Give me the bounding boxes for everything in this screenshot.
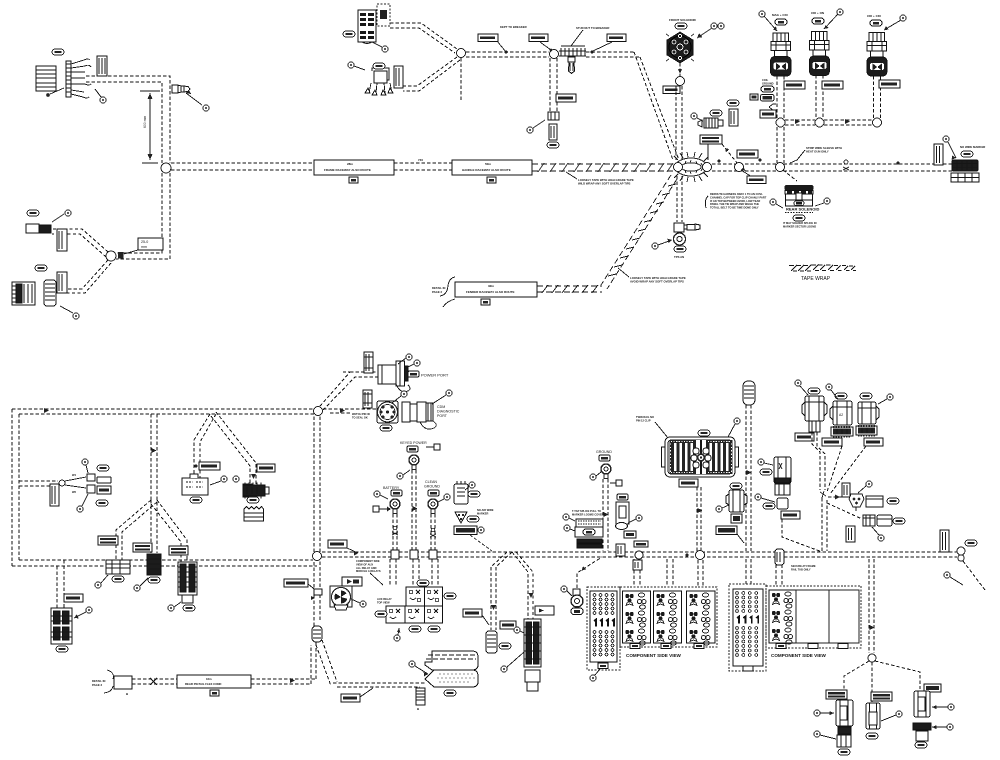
- box right: [877, 515, 892, 526]
- oval label power port: [408, 371, 419, 377]
- ref circle 2 with arrow to bolt: [186, 90, 209, 111]
- wire: Y left branch: [116, 500, 157, 560]
- dark toothed connector below: [243, 483, 269, 499]
- connector crossing bus at 779: [775, 549, 784, 565]
- wire: vertical from node D down: [550, 58, 557, 112]
- harness end connector right: [952, 160, 978, 171]
- ref circle N2: [755, 494, 775, 502]
- bus lug at ground: [429, 550, 437, 559]
- panel empty D2: [829, 590, 859, 643]
- small relay box cluster row1 box1: [406, 587, 425, 606]
- wire node O up to node P: [314, 415, 320, 552]
- wire: hatched loom run to knot: [532, 163, 674, 172]
- svg-text:AVOID WRAP ANY SOFT OVERLAP TI: AVOID WRAP ANY SOFT OVERLAP TIPS: [630, 280, 684, 284]
- ref circle lt1: [814, 710, 834, 716]
- ref circle lt2: [814, 731, 836, 739]
- wire ring up to bus: [577, 557, 602, 588]
- svg-text:REROUTE HARNESS AWAY 1 TO AN C: REROUTE HARNESS AWAY 1 TO AN COVL: [710, 192, 763, 196]
- oval 2: [428, 626, 440, 632]
- oval under right: [183, 605, 195, 611]
- text no air wire: [477, 508, 494, 515]
- ref circle rt2: [932, 724, 953, 730]
- delta connector: [455, 512, 467, 523]
- etc bracket stack: [575, 519, 603, 548]
- splice dot on bus: [718, 160, 721, 163]
- box right of W: [866, 496, 883, 507]
- splice arrows on arch legs: [491, 593, 534, 610]
- wire: node I diag to rear solenoid: [783, 170, 797, 181]
- oval under relay: [190, 497, 202, 503]
- small relay box row2 box3: [425, 606, 443, 623]
- keyed power assembly: [400, 441, 440, 452]
- splice symbol right bus: [896, 161, 899, 164]
- small dark piece below: [731, 514, 742, 523]
- node J coil junction 1: [776, 118, 785, 127]
- boxed label lamp: [64, 594, 83, 602]
- inline fuse narrow box: [57, 229, 67, 251]
- ref circle cdm1: [392, 391, 407, 403]
- box label right of impeller: [342, 577, 362, 586]
- wire: diagonal down to knot: [634, 52, 673, 160]
- svg-text:COMPONENT SIDE VIEW: COMPONENT SIDE VIEW: [626, 653, 682, 658]
- wire: node P diag to power port: [320, 372, 378, 406]
- ref circle: [691, 113, 703, 121]
- svg-text:DIAGNOSTIC: DIAGNOSTIC: [437, 410, 460, 414]
- wire below bus at 748: [746, 559, 751, 584]
- oval right trio: [915, 742, 927, 748]
- oval right: [893, 518, 905, 524]
- ref circles right of relay: [210, 476, 227, 485]
- panel A2 label: [743, 666, 753, 671]
- node L coil junction 3: [873, 118, 882, 127]
- wire: R3 to hub: [830, 446, 866, 494]
- oval lamp: [56, 646, 68, 652]
- oval tall conn: [499, 643, 511, 649]
- panel group2 outer dashed: [766, 586, 861, 648]
- svg-text:FRAME RACEWAY ALSO ROUTE: FRAME RACEWAY ALSO ROUTE: [324, 168, 371, 172]
- oval label: [675, 23, 687, 29]
- ref circle pp1: [398, 354, 412, 364]
- connector at end: [548, 112, 559, 120]
- ref circle etc2: [564, 525, 575, 531]
- boxed label under node H with arrow: [741, 167, 766, 184]
- ref circle mt: [881, 711, 902, 721]
- wire drop to node S: [869, 559, 874, 653]
- dark capsule label: [761, 95, 775, 102]
- ref circle cg: [438, 494, 450, 502]
- label 2: [808, 644, 818, 649]
- solenoid valve column: [616, 494, 630, 530]
- boxed label left of node D: [529, 34, 552, 51]
- trailer raceway rect: [177, 675, 251, 696]
- connector dark toothed left: [12, 282, 35, 305]
- svg-text:KEYED POWER: KEYED POWER: [400, 441, 427, 445]
- splice dot: [685, 553, 688, 556]
- svg-text:740: 740: [418, 158, 423, 162]
- cdm fuse box: [363, 390, 372, 408]
- wire between racks: [394, 163, 452, 170]
- boxed label above bus right: [737, 150, 758, 158]
- ref circle: [52, 210, 71, 222]
- ref circle R3: [878, 394, 893, 404]
- raceway label rect 3: [455, 282, 537, 305]
- wire: Y mid branch: [151, 500, 157, 553]
- panel B label: [630, 644, 640, 649]
- svg-text:HEAT GUN ONLY: HEAT GUN ONLY: [806, 150, 829, 154]
- dark boxed label: [454, 526, 484, 535]
- power port body: [378, 361, 410, 392]
- wire: coil link bus: [785, 120, 873, 125]
- strip wire note: [790, 146, 842, 163]
- ring terminal clean ground: [428, 499, 438, 514]
- panel C box: [654, 591, 682, 643]
- wire: node B up-left branch: [52, 229, 108, 252]
- ref circle N1: [758, 459, 773, 465]
- ring terminal ground: [601, 464, 611, 479]
- oval under mid: [148, 577, 160, 583]
- ignition coil 1 MAG: [771, 13, 792, 76]
- fuse panel A inner: [590, 591, 617, 662]
- dark boxed label light harness: [716, 526, 744, 543]
- svg-text:PORT: PORT: [437, 414, 448, 418]
- svg-text:KEPT TO BREAKER: KEPT TO BREAKER: [500, 25, 527, 29]
- wire drop 3: [432, 559, 438, 586]
- tape wrap legend: [789, 265, 856, 283]
- ref circle: [95, 575, 108, 588]
- svg-text:REAR SOLENOID: REAR SOLENOID: [786, 207, 819, 212]
- boxed label lower: [634, 541, 648, 547]
- wire trailer to elbow: [251, 679, 316, 684]
- panel B2 box: [769, 590, 796, 643]
- node I bus junction circle: [776, 163, 785, 172]
- ref circle pp2: [404, 360, 420, 369]
- splice arrow: [290, 678, 295, 683]
- boxed label R3: [864, 438, 883, 446]
- boxed label right branch: [169, 546, 188, 555]
- tps sensor body: [674, 223, 701, 245]
- ref circle under cluster: [394, 628, 401, 641]
- wire pair inner: [116, 173, 170, 259]
- wire: R1 to hub: [812, 432, 820, 490]
- label 3: [838, 644, 848, 649]
- inline fuse below: [549, 124, 557, 140]
- narrow vertical box label: [846, 526, 855, 542]
- wire: bottom-left bus: [12, 560, 317, 566]
- oval label fan3: [96, 500, 108, 506]
- svg-text:VIEW OF AUX: VIEW OF AUX: [356, 562, 373, 566]
- oval label: [547, 142, 559, 148]
- raceway label rect 1: [314, 160, 394, 183]
- ref circle far right: [944, 572, 963, 585]
- hub node R junction: [820, 491, 826, 498]
- label box 25-0 mm with leader: [124, 238, 163, 254]
- ref circle 1 with leader: [95, 89, 106, 103]
- fuse panel A pins lower: [593, 631, 614, 656]
- svg-text:CHANNEL CAP FOR TOP CLIP CHANL: CHANNEL CAP FOR TOP CLIP CHANLY PART: [710, 195, 767, 199]
- ribbed cylinder at left leg end: [486, 631, 497, 653]
- svg-text:16in: 16in: [206, 677, 212, 681]
- starter lug component: [454, 481, 468, 504]
- left trio connector: [826, 690, 853, 747]
- svg-text:MARKER LOOMS COVERS: MARKER LOOMS COVERS: [572, 512, 606, 516]
- label oval P00: [52, 49, 64, 55]
- right trio connector: [913, 684, 941, 741]
- wire: arch split on bus: [491, 552, 533, 630]
- stud bolt below rail: [568, 57, 575, 74]
- ref circle coil1: [759, 11, 777, 31]
- node K coil junction 2: [815, 118, 824, 127]
- label black dot: [478, 34, 508, 54]
- W triangle connector: [849, 494, 864, 511]
- small box right of tall conn: [535, 606, 554, 615]
- wire hub to W comp: [828, 496, 848, 498]
- svg-text:MARKER SECTOR LOOMS: MARKER SECTOR LOOMS: [783, 224, 816, 228]
- panel BCD outer dashed: [620, 587, 717, 647]
- svg-text:ALL RELAY AND: ALL RELAY AND: [356, 566, 377, 570]
- splice symbol mid bus: [843, 160, 849, 170]
- fuse panel A label: [598, 663, 608, 669]
- oval label: [343, 31, 355, 37]
- note text ecm: [636, 415, 668, 438]
- oval label: [727, 100, 739, 106]
- cdm cylinder body: [402, 402, 436, 429]
- GROUND label assembly: [596, 450, 612, 461]
- trailer pigtail detail: [92, 670, 177, 696]
- oval left trio: [838, 749, 850, 755]
- small connector lower: [863, 515, 875, 526]
- svg-text:MAG + CDI: MAG + CDI: [772, 13, 788, 17]
- junction node B circle: [106, 251, 116, 261]
- ref circle impeller: [351, 599, 366, 607]
- oval right of row1: [444, 593, 456, 599]
- ref circle R1: [795, 380, 808, 395]
- wire from end junction down-right: [963, 561, 985, 590]
- impeller fan connector: [330, 586, 352, 610]
- svg-text:SECURE AT FRAME: SECURE AT FRAME: [791, 564, 816, 568]
- boxed label right: [590, 34, 626, 54]
- boxed label left of node E: [663, 86, 680, 94]
- splice arrow on branch: [251, 474, 256, 479]
- wire bus right of knot: [712, 164, 952, 171]
- wire: main lower bus full width: [322, 552, 957, 557]
- panel D label: [694, 644, 704, 649]
- wire: lower small bus to snowflap: [333, 683, 425, 687]
- wire hub to lower right comp: [827, 503, 862, 519]
- oval right of box: [887, 498, 899, 504]
- node E junction circle: [676, 77, 685, 86]
- splice arrow capsule wire: [747, 470, 752, 475]
- low box: [624, 531, 636, 538]
- wire riser to node O: [314, 560, 320, 626]
- wire: diag pair from relay up to node C: [390, 23, 457, 49]
- svg-text:STUD NUT TO BREAKER: STUD NUT TO BREAKER: [576, 26, 609, 30]
- wire: node P to cdm port: [323, 409, 377, 413]
- ring terminal battery: [390, 499, 400, 514]
- svg-text:CDI + ON: CDI + ON: [811, 11, 824, 15]
- small relay box row1 box2: [425, 587, 443, 606]
- oval label starter: [468, 491, 480, 497]
- splice dot on bus 2: [759, 159, 762, 162]
- bus lug at keyed: [410, 550, 418, 559]
- wire: main bus from node A rightwards: [171, 162, 314, 164]
- wire drops to small relays: [390, 559, 396, 586]
- svg-text:TOTALL BELT TO BE TIME DONE ON: TOTALL BELT TO BE TIME DONE ONLY: [710, 206, 759, 210]
- ref circle: [943, 136, 956, 160]
- splice arrow: [835, 495, 840, 500]
- relay box lower: [182, 474, 208, 495]
- Y splice wire: [769, 104, 776, 110]
- oval under plate: [444, 690, 456, 696]
- wire: knot diagonal loom down-left: [601, 175, 677, 289]
- inline fuse narrow box 2: [57, 272, 67, 293]
- svg-text:W4: W4: [72, 473, 76, 477]
- ref circle kp: [397, 470, 410, 479]
- splice mark: [392, 526, 398, 535]
- ref circle coil2: [824, 9, 843, 29]
- svg-text:T-TAP SPLICE PULL TO: T-TAP SPLICE PULL TO: [572, 509, 601, 513]
- connector R1 top: [802, 396, 827, 432]
- connector N left: [774, 457, 791, 509]
- svg-text:TPS AN: TPS AN: [674, 255, 684, 259]
- svg-text:PANEL THE TIE WRAP AND WHILE T: PANEL THE TIE WRAP AND WHILE THE: [710, 202, 759, 206]
- wire ground down to bus: [603, 479, 608, 551]
- svg-text:POWER PORT: POWER PORT: [421, 373, 449, 378]
- svg-text:FRONT SOLENOID: FRONT SOLENOID: [669, 18, 697, 22]
- splice arrow on bottom bus: [150, 559, 155, 564]
- lamp tall striped connector: [51, 608, 72, 644]
- front solenoid hex connector: [666, 32, 694, 63]
- oil pressure sensor cluster: [698, 118, 723, 128]
- tall connector at right leg: [524, 619, 541, 691]
- fuse holder labels left: [762, 78, 774, 85]
- ref circle ring: [561, 586, 572, 596]
- oval under cdm: [380, 425, 392, 431]
- wire: top bus of bottom harness: [12, 409, 314, 414]
- grommet ribbed cylinder: [44, 280, 56, 306]
- ref circle right: [815, 198, 830, 206]
- ovals under relay cluster: [409, 626, 421, 632]
- wire drop to panel A2: [776, 559, 782, 585]
- ref circle 2: [233, 476, 239, 482]
- accessory striped box: [358, 10, 376, 44]
- svg-text:WATCH PIN 30: WATCH PIN 30: [352, 412, 371, 416]
- oval label: [35, 265, 47, 271]
- node S junction circle: [868, 654, 876, 662]
- svg-text:MARKER: MARKER: [477, 511, 489, 515]
- svg-text:CLEAN: CLEAN: [425, 480, 437, 484]
- node O junction circle: [313, 552, 322, 561]
- note loosely tape 2: [618, 268, 686, 284]
- connector small dark top-left-bottom: [26, 224, 51, 233]
- svg-text:B: B: [126, 692, 129, 696]
- panel C pins: [656, 593, 677, 645]
- svg-text:GROUND: GROUND: [596, 450, 612, 454]
- node P junction circle: [314, 407, 323, 416]
- tps sensor below knot: [677, 176, 682, 222]
- splice arrows on link: [795, 119, 850, 124]
- label rounded: [97, 477, 111, 483]
- ref circle rt1: [932, 704, 954, 710]
- svg-text:IF AN TOP BETWEEN AVOID, LOW T: IF AN TOP BETWEEN AVOID, LOW TEAR: [710, 199, 760, 203]
- svg-text:COMPONENT SIDE: COMPONENT SIDE: [356, 559, 380, 563]
- oval: [247, 497, 259, 503]
- node H bus junction circle: [735, 163, 744, 172]
- oval top of relay cluster: [417, 580, 429, 586]
- dimension 600mm vertical: [140, 91, 160, 163]
- connector hanging under left line: [50, 484, 59, 506]
- svg-text:AUX RELAY: AUX RELAY: [377, 597, 392, 601]
- svg-text:mm: mm: [141, 245, 147, 249]
- ignition coil 3: [867, 14, 887, 76]
- oval label rear solenoid: [793, 215, 805, 221]
- wire kp down to bus: [412, 470, 416, 552]
- wire node Q down to panel: [698, 560, 703, 586]
- ref circle with leader: [372, 42, 388, 52]
- svg-text:TO SEAL OK: TO SEAL OK: [352, 415, 368, 419]
- capsule connector on riser: [312, 626, 322, 642]
- node C junction circle: [457, 49, 466, 58]
- oval under: [112, 576, 124, 582]
- ref circle bat: [374, 491, 388, 499]
- boxed label grommet2 with leader: [341, 688, 373, 702]
- node N junction at 210 top bus: [194, 414, 216, 478]
- svg-text:GROUND: GROUND: [762, 81, 774, 85]
- note: loosely tape annotation: [566, 172, 634, 186]
- text above etc: [572, 509, 606, 516]
- square lug battery: [373, 506, 391, 512]
- grommet label on bus: [328, 540, 358, 556]
- boxed label for cylinder: [463, 609, 489, 625]
- ref circle fan bottom: [77, 494, 88, 512]
- note stud nut to breaker: [571, 26, 609, 46]
- wire: hex down to node E: [679, 63, 681, 76]
- small relay box row2 box2: [405, 606, 425, 623]
- fuse panel A pins: [593, 594, 614, 615]
- ignition coil 2 PTO: [810, 11, 830, 76]
- panel D pins: [689, 593, 710, 645]
- ref circle bottom: [501, 652, 524, 672]
- panel empty C2: [796, 590, 829, 643]
- panel A2 glyphs: [737, 617, 758, 624]
- ref circle leader: [348, 62, 365, 70]
- ring terminal keyed power: [409, 455, 419, 470]
- dark blob connector: [243, 484, 252, 497]
- svg-text:WILD WRAP ANY SOFT OVERLAP TIP: WILD WRAP ANY SOFT OVERLAP TIPS: [578, 182, 631, 186]
- panel A2 outer: [729, 584, 766, 671]
- stub below node C: [460, 58, 462, 100]
- wire battery to bus: [393, 514, 397, 552]
- svg-text:NO WIRE MARKER: NO WIRE MARKER: [960, 145, 985, 149]
- battery assembly: [383, 486, 402, 496]
- wire S to mid connector: [871, 662, 873, 702]
- ref circle mid: [134, 578, 148, 591]
- wire elbow up capsule: [311, 640, 316, 684]
- lug square ground: [610, 480, 622, 486]
- connector bottom of left branch: [106, 560, 130, 574]
- splice arrow: [870, 625, 875, 630]
- svg-text:COIL: COIL: [762, 78, 769, 82]
- snowflap console upper: [425, 651, 478, 670]
- oval label for relay: [373, 63, 385, 69]
- ribbed connector below bus B: [416, 688, 425, 711]
- end junction double circle: [957, 547, 965, 561]
- ref circle coil3: [884, 15, 906, 30]
- inline holder narrow box: [394, 66, 403, 88]
- oval N2: [763, 503, 775, 509]
- ref circle fan top: [82, 459, 88, 473]
- far right oval: [965, 540, 977, 546]
- ref circle starter: [465, 482, 475, 490]
